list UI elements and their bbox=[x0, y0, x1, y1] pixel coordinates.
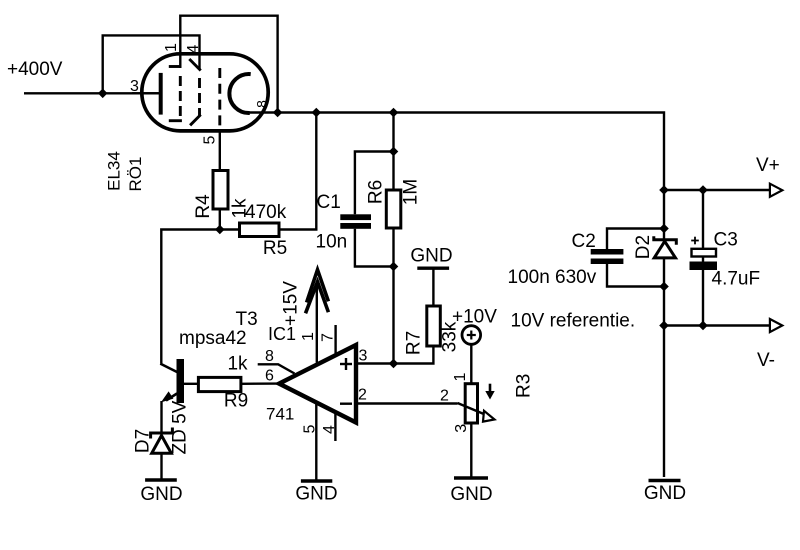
svg-text:+15V: +15V bbox=[280, 281, 301, 326]
svg-text:GND: GND bbox=[295, 484, 337, 505]
svg-text:2: 2 bbox=[358, 387, 367, 404]
op-amp U1 triangle bbox=[279, 345, 356, 423]
label + (C3) bbox=[691, 237, 699, 245]
svg-text:R3: R3 bbox=[514, 374, 535, 398]
svg-text:C2: C2 bbox=[572, 231, 596, 252]
capacitor C2 bbox=[591, 249, 624, 264]
node C1 bottom junction bbox=[389, 262, 399, 272]
svg-text:GND: GND bbox=[450, 484, 492, 505]
diode D2 zener bar bbox=[654, 236, 677, 245]
wire op-amp pin 7 stub bbox=[334, 325, 336, 354]
node V+ C3 junction bbox=[698, 185, 708, 195]
node C2 top junction bbox=[659, 224, 669, 234]
wire C3 branch bbox=[702, 190, 704, 249]
svg-text:R6: R6 bbox=[366, 180, 387, 204]
wire pin 3 bbox=[132, 92, 159, 94]
transistor T3 emitter arrow bbox=[161, 391, 174, 402]
diode D2 triangle bbox=[654, 241, 675, 258]
svg-text:EL34: EL34 bbox=[105, 151, 124, 191]
wire emitter to D7 bbox=[160, 401, 162, 433]
potentiometer R3 wiper diagonal bbox=[458, 403, 486, 415]
svg-text:R9: R9 bbox=[224, 391, 248, 412]
svg-text:C3: C3 bbox=[714, 230, 738, 251]
tube grid g1 (pin 5) dashed bbox=[218, 68, 221, 131]
svg-text:3: 3 bbox=[453, 424, 470, 433]
wire C1 top branch bbox=[355, 152, 394, 215]
diode D7 zener bar bbox=[151, 428, 173, 439]
terminal V+ arrow bbox=[770, 184, 782, 197]
node op-amp pin3 junction bbox=[389, 359, 399, 369]
power +15V arrow bbox=[306, 270, 329, 314]
wire V+ rail bbox=[664, 189, 770, 191]
svg-text:+10V: +10V bbox=[452, 307, 497, 328]
wire R7 bottom to pin3 node bbox=[394, 346, 434, 364]
svg-text:R4: R4 bbox=[193, 194, 214, 219]
wire +10V to R3 bbox=[470, 344, 472, 384]
node V- C3 junction bbox=[698, 321, 708, 331]
wire R6 branch vertical bbox=[392, 113, 394, 191]
svg-text:1k: 1k bbox=[227, 354, 248, 375]
wire C2 top branch bbox=[607, 229, 664, 250]
svg-text:1: 1 bbox=[452, 372, 469, 381]
wire C2 bottom branch bbox=[607, 264, 664, 287]
svg-text:C1: C1 bbox=[317, 192, 341, 213]
transistor T3 emitter lead bbox=[166, 394, 177, 401]
svg-text:D7: D7 bbox=[133, 429, 154, 453]
potentiometer R3 body bbox=[465, 384, 477, 423]
svg-text:R7: R7 bbox=[404, 331, 425, 355]
svg-text:10n: 10n bbox=[316, 232, 348, 253]
wire R4 bottom bbox=[219, 209, 221, 230]
svg-text:+400V: +400V bbox=[7, 59, 63, 80]
ground symbol under D7 bbox=[145, 478, 177, 481]
svg-text:4: 4 bbox=[185, 44, 202, 53]
transistor T3 collector lead bbox=[160, 364, 178, 373]
wire R9 right to op-amp pin 6 bbox=[241, 382, 279, 385]
capacitor C3 positive plate bbox=[692, 249, 717, 257]
wire op-amp pin 8 stub bbox=[258, 364, 295, 373]
svg-text:V+: V+ bbox=[756, 155, 780, 176]
wire V- rail bbox=[664, 324, 770, 326]
resistor R6 bbox=[386, 190, 401, 228]
terminal V- arrow bbox=[770, 319, 782, 332]
wire tube pin 5 to R4 bbox=[219, 131, 221, 171]
op-amp plus input mark bbox=[340, 358, 352, 370]
svg-text:IC1: IC1 bbox=[268, 324, 296, 344]
ground symbol under op-amp bbox=[301, 479, 332, 482]
svg-text:R5: R5 bbox=[263, 238, 287, 259]
node V+ main junction bbox=[659, 185, 669, 195]
svg-text:GND: GND bbox=[140, 484, 182, 505]
adjustment arrow (R3) bbox=[485, 384, 494, 400]
svg-text:6: 6 bbox=[265, 368, 274, 385]
svg-text:5: 5 bbox=[201, 135, 218, 144]
svg-text:741: 741 bbox=[266, 405, 294, 424]
svg-text:D2: D2 bbox=[633, 235, 654, 259]
capacitor C1 bbox=[340, 214, 371, 229]
tube RÖ1 EL34 envelope bbox=[142, 54, 268, 131]
svg-text:5: 5 bbox=[302, 424, 319, 433]
resistor R4 bbox=[213, 171, 228, 210]
ground symbol under R3 bbox=[454, 476, 488, 479]
svg-text:mpsa42: mpsa42 bbox=[179, 328, 247, 349]
svg-text:1: 1 bbox=[163, 43, 180, 52]
wire op-amp pin 2 to pot wiper bbox=[356, 402, 458, 404]
wire g3 (pin 1) to cathode tie bbox=[180, 16, 277, 113]
svg-text:1M: 1M bbox=[401, 179, 422, 205]
tube anode plate (pin 3) bbox=[159, 73, 163, 115]
wire +400V riser to g2 (pin 4) bbox=[103, 35, 200, 93]
wire R5 right to rail bbox=[279, 113, 316, 230]
power +10V source circle bbox=[462, 326, 481, 345]
node R5 riser junction bbox=[312, 108, 322, 118]
node V- main junction bbox=[659, 321, 669, 331]
svg-text:ZD 5V: ZD 5V bbox=[170, 400, 191, 454]
svg-text:2: 2 bbox=[440, 388, 449, 405]
svg-text:4.7uF: 4.7uF bbox=[712, 269, 761, 290]
wire cathode rail (pin 8 to right) bbox=[248, 113, 664, 191]
svg-text:470k: 470k bbox=[245, 202, 287, 223]
op-amp minus input mark bbox=[340, 403, 352, 405]
wire main output line bbox=[663, 190, 665, 477]
wire op-amp pin 3 bbox=[356, 362, 394, 364]
ground symbol right bbox=[649, 479, 681, 483]
tube grid g3 (pin 1) dashed bbox=[169, 67, 182, 121]
capacitor C3 negative plate bbox=[690, 262, 718, 271]
wire GND to R7 bbox=[432, 269, 434, 306]
resistor R9 bbox=[198, 377, 241, 391]
svg-text:10V referentie.: 10V referentie. bbox=[511, 311, 636, 332]
ground symbol above R7 bbox=[417, 267, 449, 270]
wire R9 left bbox=[184, 383, 198, 385]
wire D7 to ground bbox=[160, 453, 162, 479]
svg-text:1: 1 bbox=[300, 332, 317, 341]
tube cathode arc (pin 8) bbox=[229, 74, 250, 113]
svg-text:3: 3 bbox=[359, 348, 368, 365]
node C1 top junction bbox=[389, 147, 399, 157]
node pin8 / g3 junction bbox=[273, 108, 283, 118]
wire op-amp pin 5 to ground bbox=[315, 403, 317, 480]
svg-text:V-: V- bbox=[757, 350, 775, 371]
svg-text:GND: GND bbox=[410, 246, 452, 267]
diode D7 triangle bbox=[152, 436, 172, 454]
wire C1 bottom branch bbox=[355, 229, 394, 267]
svg-text:100n 630v: 100n 630v bbox=[508, 267, 597, 288]
wire +400V feed bbox=[24, 92, 160, 94]
wire R3 bottom to ground bbox=[470, 423, 472, 477]
wire op-amp pin 1 / +15V line bbox=[316, 283, 318, 363]
svg-text:GND: GND bbox=[644, 483, 686, 504]
svg-text:RÖ1: RÖ1 bbox=[126, 157, 145, 192]
svg-text:3: 3 bbox=[130, 78, 139, 95]
node R4/R5 junction bbox=[215, 225, 225, 235]
svg-text:T3: T3 bbox=[236, 309, 258, 330]
wire junction to collector (left drop) bbox=[161, 230, 239, 364]
svg-text:8: 8 bbox=[265, 348, 274, 365]
resistor R7 bbox=[427, 306, 441, 346]
svg-text:7: 7 bbox=[320, 333, 337, 342]
transistor T3 base bar bbox=[177, 359, 185, 403]
svg-text:4: 4 bbox=[321, 425, 338, 434]
wire op-amp pin 4 stub bbox=[334, 412, 336, 441]
node C2 bottom junction bbox=[659, 282, 669, 292]
resistor R5 bbox=[240, 223, 280, 237]
svg-text:8: 8 bbox=[254, 100, 270, 108]
potentiometer R3 wiper arrowhead bbox=[483, 411, 495, 422]
node +400V junction bbox=[98, 89, 108, 99]
node R6 branch junction bbox=[389, 108, 399, 118]
tube grid g2 (pin 4) dashed bbox=[189, 59, 200, 125]
